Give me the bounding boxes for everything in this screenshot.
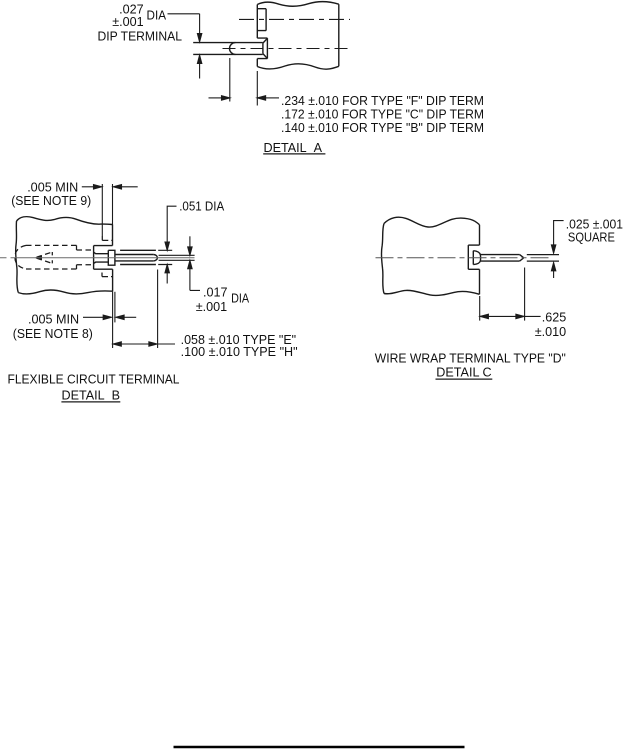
leader .025 square bbox=[554, 221, 564, 246]
svg-text:(SEE NOTE 9): (SEE NOTE 9) bbox=[11, 194, 91, 208]
leader line for .027 DIA bbox=[168, 14, 200, 34]
svg-text:DETAIL B: DETAIL B bbox=[62, 388, 121, 402]
extension line body face down (detail B) bbox=[112, 291, 114, 348]
terminal barrel inner bore + slot end (detail B) bbox=[115, 255, 153, 261]
centerline (terminal axis, detail C) bbox=[376, 257, 553, 259]
up arrow .017 + elbow bbox=[188, 261, 192, 269]
underline DETAIL A bbox=[263, 153, 325, 155]
dimension .005 MIN (note 9) arrows bbox=[82, 186, 94, 188]
square post .025 (detail C) bbox=[480, 255, 523, 262]
svg-text:.172 ±.010 FOR TYPE "C" DIP TE: .172 ±.010 FOR TYPE "C" DIP TERM bbox=[281, 107, 484, 121]
svg-text:±.001: ±.001 bbox=[112, 15, 143, 29]
up arrow .025 bbox=[551, 263, 555, 271]
up arrow .051 bbox=[165, 265, 169, 273]
svg-text:DIA: DIA bbox=[147, 9, 167, 23]
centerline (pin axis, detail A) bbox=[223, 48, 351, 50]
wire .017 dia (detail B) bbox=[159, 255, 195, 260]
labels detail A bbox=[98, 2, 485, 154]
down arrow (pin dia, detail A) bbox=[197, 34, 201, 42]
svg-text:.140 ±.010 FOR TYPE "B" DIP TE: .140 ±.010 FOR TYPE "B" DIP TERM bbox=[281, 121, 484, 135]
hidden terminal outline inside body bbox=[26, 245, 77, 269]
hidden lines (dashed) detail B bbox=[15, 236, 113, 277]
hidden step to crimp bbox=[76, 245, 78, 269]
dimension .005 MIN (note 8) arrows bbox=[83, 316, 103, 318]
footer border line bbox=[174, 746, 465, 748]
terminal flange (detail B) bbox=[108, 250, 115, 265]
recess notch (upper) on body A bbox=[257, 9, 266, 31]
extension line below pin tip (detail A) bbox=[229, 58, 231, 102]
body lower face edge stub bbox=[114, 292, 116, 323]
hidden notch corner (lower) bbox=[102, 273, 113, 277]
extension line post tip down (detail C) bbox=[524, 268, 526, 321]
svg-text:(SEE NOTE 8): (SEE NOTE 8) bbox=[13, 327, 93, 341]
labels detail C bbox=[375, 218, 623, 380]
svg-text:.234 ±.010 FOR TYPE "F" DIP TE: .234 ±.010 FOR TYPE "F" DIP TERM bbox=[281, 94, 484, 108]
leader .051 DIA bbox=[167, 206, 176, 242]
extension line body face down (detail C) bbox=[479, 296, 481, 321]
pin flange / collar (detail A) bbox=[257, 38, 267, 59]
svg-text:.005 MIN: .005 MIN bbox=[27, 180, 78, 194]
extension line below body face (detail A) bbox=[256, 71, 258, 106]
svg-text:.625: .625 bbox=[542, 311, 567, 325]
underline DETAIL C bbox=[436, 378, 493, 380]
centerline (upper cavity axis, detail A) bbox=[239, 18, 350, 20]
extension line pin tip down (detail B) bbox=[157, 270, 159, 349]
body (connector housing, detail A) bbox=[257, 2, 339, 70]
svg-text:±.001: ±.001 bbox=[196, 300, 227, 314]
post extension stubs (detail C) bbox=[527, 255, 559, 262]
svg-text:WIRE WRAP TERMINAL TYPE "D": WIRE WRAP TERMINAL TYPE "D" bbox=[375, 352, 566, 366]
DIP terminal pin (detail A) bbox=[193, 43, 263, 55]
labels detail B bbox=[8, 180, 298, 402]
body (flexible circuit, detail B) bbox=[16, 217, 113, 294]
svg-text:DETAIL A: DETAIL A bbox=[264, 141, 323, 155]
hidden entry cone bbox=[37, 252, 53, 263]
svg-text:SQUARE: SQUARE bbox=[568, 230, 615, 244]
svg-text:DIA: DIA bbox=[231, 292, 250, 306]
centerline (terminal axis, detail B) bbox=[0, 257, 195, 259]
svg-text:±.010: ±.010 bbox=[535, 325, 566, 339]
extension lines upper .005 MIN bbox=[101, 184, 103, 236]
dimension .234/.172/.140 arrows bbox=[209, 97, 223, 99]
svg-text:.005 MIN: .005 MIN bbox=[28, 313, 79, 327]
body (detail C) bbox=[381, 217, 479, 295]
svg-text:DIP TERMINAL: DIP TERMINAL bbox=[98, 29, 183, 43]
svg-text:.017: .017 bbox=[203, 285, 228, 299]
svg-text:.100 ±.010 TYPE "H": .100 ±.010 TYPE "H" bbox=[181, 345, 298, 359]
up arrow (pin dia, detail A) bbox=[197, 55, 201, 63]
solid arrowhead of hidden cone bbox=[35, 255, 43, 260]
dimension .058/.100 line + arrows bbox=[113, 343, 175, 345]
wire wrap terminal head (detail C) bbox=[473, 251, 480, 265]
underline DETAIL B bbox=[61, 401, 120, 403]
svg-text:FLEXIBLE CIRCUIT TERMINAL: FLEXIBLE CIRCUIT TERMINAL bbox=[8, 372, 180, 386]
dimension .625 line + arrows bbox=[480, 315, 541, 317]
leader .017 DIA upper shaft + down arrow bbox=[189, 236, 191, 247]
hidden rounded end (dashed arc) bbox=[15, 245, 26, 269]
terminal crimp section (detail B) bbox=[94, 252, 109, 263]
hidden notch corner (upper) bbox=[102, 236, 112, 240]
svg-text:.051 DIA: .051 DIA bbox=[179, 200, 225, 214]
terminal barrel outer surface (detail B) bbox=[120, 250, 156, 264]
svg-text:DETAIL C: DETAIL C bbox=[436, 366, 491, 380]
